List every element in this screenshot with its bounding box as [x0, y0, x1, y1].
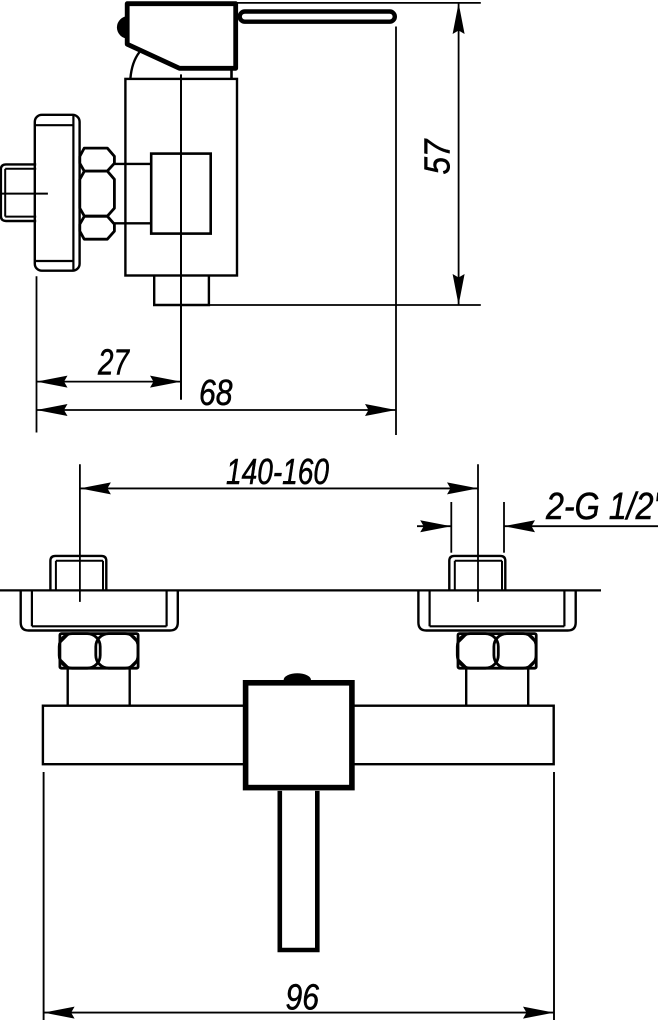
right hex nut (front) — [457, 634, 536, 669]
svg-text:27: 27 — [97, 342, 130, 383]
extension line from flange to 27/68 dims — [36, 276, 38, 432]
wall flange / escutcheon (side view) — [35, 115, 80, 271]
left hex nut (front) — [59, 634, 138, 669]
pipe centerline (side view) — [0, 193, 48, 195]
handle head left bulge — [117, 16, 129, 39]
extension line from lever tip to 68 dim — [395, 27, 397, 436]
lever bar — [240, 12, 395, 22]
hex connection nut (side view, three facets) — [80, 148, 115, 239]
dimension 96 — [44, 977, 554, 1019]
mixer body (side view) — [125, 79, 237, 276]
connector stub between nut and inlet block (side view) — [114, 164, 151, 223]
G 1/2 extension lines — [451, 502, 504, 553]
svg-text:2-G 1/2": 2-G 1/2" — [545, 486, 658, 528]
svg-text:57: 57 — [417, 138, 458, 175]
right pipe stub — [449, 556, 505, 590]
dome button on cartridge — [284, 673, 311, 680]
cartridge block (front, thick) — [246, 683, 352, 788]
dimension 68 — [37, 372, 397, 416]
wall line — [0, 589, 601, 591]
extension lines for 96 dim — [44, 772, 554, 1020]
handle skirt arc left — [130, 52, 139, 78]
left pipe stub — [50, 556, 106, 590]
dimension 57 (vertical) — [417, 3, 465, 305]
svg-text:140-160: 140-160 — [226, 451, 329, 492]
spout pipe — [280, 791, 318, 950]
right eccentric cylinder — [466, 668, 528, 705]
dimension 140-160 — [80, 451, 478, 494]
extension line from outlet stub to 57 dim — [209, 304, 481, 306]
svg-text:68: 68 — [199, 372, 233, 413]
G 1/2 leader arrows — [417, 520, 658, 532]
handle head (thick outline) — [127, 4, 236, 69]
left escutcheon flange (front) — [21, 590, 178, 630]
top extension line to 57 dim — [235, 2, 481, 4]
wall pipe stub (side view, threaded end) — [1, 164, 36, 221]
right escutcheon flange (front) — [418, 590, 575, 630]
handle-body connector right — [230, 69, 233, 80]
body center edge line — [180, 74, 182, 399]
bottom outlet stub (side view) — [154, 275, 209, 305]
left pipe centerline — [79, 464, 81, 602]
dimension 27 — [37, 342, 182, 388]
mixer body (front) — [43, 706, 554, 765]
right pipe centerline — [477, 464, 479, 602]
svg-text:96: 96 — [286, 977, 320, 1018]
left eccentric cylinder — [68, 668, 130, 705]
inlet block on body (side view) — [151, 154, 211, 234]
